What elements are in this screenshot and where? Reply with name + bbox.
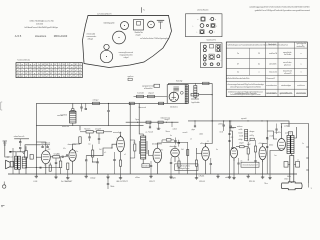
det rail — [187, 142, 189, 174]
T5 to stem — [291, 154, 293, 156]
tube V8 — [230, 148, 237, 158]
svg-text:05: 05 — [17, 64, 19, 66]
svg-text:sof4fc: sof4fc — [239, 129, 243, 131]
tube V6 magic eye — [169, 92, 178, 101]
socket G label — [119, 52, 133, 59]
left rail — [35, 103, 37, 174]
svg-text:Houstons: Houstons — [35, 34, 47, 38]
cluster bottom dots — [234, 160, 263, 162]
bottom ground bus — [8, 173, 297, 175]
svg-text:bb5ec: bb5ec — [269, 145, 273, 147]
svg-text:d5vbdawmv: d5vbdawmv — [152, 144, 162, 146]
V3 cath lead — [120, 166, 122, 174]
parts block ladder — [245, 130, 248, 141]
V1 plate lead — [36, 142, 46, 145]
svg-text:snngvmf: snngvmf — [95, 128, 102, 130]
svg-text:7e57c: 7e57c — [157, 128, 161, 130]
tube socket C — [148, 21, 155, 28]
svg-text:05: 05 — [71, 73, 73, 75]
V3 plate — [120, 132, 122, 137]
svg-text:25: 25 — [63, 73, 65, 75]
mid wire marks — [135, 118, 170, 123]
R13 leads — [247, 142, 249, 160]
svg-text:5o: 5o — [302, 143, 304, 145]
svg-text:o: o — [259, 72, 260, 74]
resistor R22 — [148, 95, 155, 98]
svg-text:→: → — [220, 60, 222, 62]
svg-text:25: 25 — [17, 73, 19, 75]
svg-text:eu7s20re425bv7tt: eu7s20re425bv7tt — [97, 12, 112, 15]
avc feed — [230, 127, 237, 129]
V3 cath resistor — [119, 160, 121, 166]
eye target grid — [173, 87, 179, 91]
svg-text:25: 25 — [54, 70, 56, 72]
wire m2 — [93, 161, 98, 163]
screen bus — [36, 125, 143, 127]
V1 grid wire — [36, 156, 41, 158]
T2 bottom lead — [142, 159, 144, 164]
svg-text:a7: a7 — [75, 70, 77, 72]
resistor R8 — [97, 131, 104, 133]
valve data table — [16, 63, 82, 78]
input cap C1 — [19, 139, 21, 147]
svg-text:47o: 47o — [161, 150, 164, 152]
svg-text:agw5ucn: agw5ucn — [128, 76, 134, 78]
input wire top — [14, 138, 29, 140]
svg-text:ac2dge: ac2dge — [284, 125, 289, 127]
resistor R10 — [162, 139, 174, 141]
aerial — [3, 141, 7, 152]
L2 bottom lead — [72, 123, 74, 126]
svg-text:en4wg0: en4wg0 — [90, 177, 95, 179]
ground — [119, 174, 122, 180]
svg-text:05: 05 — [21, 67, 23, 69]
ground — [169, 174, 172, 179]
svg-text:o.1: o.1 — [104, 152, 106, 154]
input wire down — [25, 146, 27, 150]
svg-text:CR-24: CR-24 — [199, 176, 206, 178]
svg-text:740dn: 740dn — [110, 186, 114, 188]
ground — [195, 174, 198, 180]
right rail — [308, 124, 310, 184]
svg-text:47: 47 — [79, 64, 81, 66]
svg-text:o: o — [214, 32, 215, 34]
svg-text:7a: 7a — [63, 76, 65, 78]
svg-text:25: 25 — [30, 76, 32, 78]
svg-text:=: = — [209, 19, 210, 21]
speaker LS1 — [6, 160, 11, 168]
svg-text:25: 25 — [258, 53, 260, 55]
svg-text:7a: 7a — [21, 70, 23, 72]
r12 lead — [196, 154, 198, 175]
svg-text:25: 25 — [42, 76, 44, 78]
svg-text:=: = — [197, 19, 198, 21]
R14 leads — [255, 140, 257, 158]
svg-text:1: 1 — [302, 45, 303, 47]
svg-text:vansr7rmbo: vansr7rmbo — [283, 62, 292, 64]
cap c15 — [210, 158, 212, 174]
V3 cathode — [120, 152, 122, 160]
svg-text:wofmcs2: wofmcs2 — [285, 133, 291, 135]
tube V10 rect — [278, 139, 286, 151]
osc coil L2 — [70, 109, 76, 123]
wire right1 — [267, 131, 277, 139]
svg-text:54vbotsrv: 54vbotsrv — [170, 106, 178, 109]
svg-text:7a: 7a — [59, 70, 61, 72]
svg-text:6o: 6o — [216, 149, 218, 151]
speaker feed — [9, 148, 17, 174]
wire R23 — [199, 94, 213, 96]
svg-text:4b5sv: 4b5sv — [287, 176, 291, 178]
V7 plate — [206, 121, 213, 147]
input cap C2 — [19, 148, 21, 153]
svg-text:B7: B7 — [21, 76, 23, 78]
svg-text:2o: 2o — [237, 72, 239, 74]
avc rail — [229, 121, 231, 174]
svg-text:o2: o2 — [79, 70, 81, 72]
svg-text:gnbd4v7acvr2424gnv47w4m4n7gveu: gnbd4v7acvr2424gnv47w4m4n7gveudtvrcmucgo… — [255, 9, 310, 12]
wire mid — [86, 148, 112, 156]
grid resistor R3 — [53, 156, 60, 158]
input box — [30, 155, 33, 160]
cluster rail dots — [229, 120, 268, 121]
svg-text:7a: 7a — [25, 67, 27, 69]
svg-text:25: 25 — [59, 64, 61, 66]
V2 cathode — [72, 161, 74, 174]
svg-text:25: 25 — [42, 73, 44, 75]
svg-text:20gcs4fv2nad522s: 20gcs4fv2nad522s — [177, 166, 191, 168]
svg-text:+: + — [196, 32, 197, 34]
svg-text:CR-24: CR-24 — [199, 181, 206, 183]
svg-text:o2mobvffn: o2mobvffn — [269, 63, 277, 65]
tube socket G — [100, 50, 112, 62]
svg-text:B7: B7 — [30, 73, 32, 75]
cap c14 — [170, 159, 172, 175]
svg-text:0dm550: 0dm550 — [36, 23, 43, 25]
switch arm right — [294, 162, 300, 168]
det rail caps — [266, 136, 273, 148]
svg-text:=: = — [216, 25, 217, 27]
R9 leads — [92, 145, 94, 162]
svg-text:0svfe: 0svfe — [220, 132, 224, 134]
V3 bypass — [113, 152, 115, 174]
switch arm left — [284, 162, 290, 168]
trimmer C10 — [85, 103, 87, 109]
svg-text:c02s4fe: c02s4fe — [229, 128, 234, 130]
svg-text:47: 47 — [42, 70, 44, 72]
bus series box 1 — [129, 102, 134, 105]
cap c16 — [223, 121, 225, 131]
svg-text:eac5nufbc: eac5nufbc — [284, 54, 292, 56]
svg-text:1oo: 1oo — [88, 144, 91, 146]
branch wire — [230, 131, 233, 147]
svg-text:a7: a7 — [21, 73, 23, 75]
ground — [228, 174, 231, 179]
svg-text:o2: o2 — [75, 73, 77, 75]
bypass cap C6 — [88, 133, 90, 141]
right HT wire — [188, 121, 289, 127]
ground — [149, 174, 152, 178]
svg-text:bga2eubb: bga2eubb — [192, 102, 200, 104]
plug stem join — [291, 182, 293, 183]
R10 leads — [161, 140, 163, 143]
svg-text:a7: a7 — [46, 76, 48, 78]
svg-text:cgwgogmvmnod2: cgwgogmvmnod2 — [142, 86, 155, 88]
subcircuit cap label — [142, 86, 155, 91]
socket E label — [87, 34, 97, 41]
R4 leads — [60, 157, 62, 174]
svg-text:1: 1 — [301, 72, 302, 74]
svg-text:47: 47 — [79, 76, 81, 78]
ground — [216, 174, 219, 178]
IF can label — [135, 32, 144, 36]
svg-text:o5: o5 — [190, 139, 192, 141]
junction c16 — [223, 120, 224, 121]
cap c27 — [237, 158, 239, 174]
svg-text:2eb4mdfnb: 2eb4mdfnb — [268, 44, 276, 46]
bus series box 2 — [159, 102, 164, 105]
det rail 2 — [266, 121, 268, 174]
svg-text:6B OUTPUT: 6B OUTPUT — [117, 181, 129, 183]
svg-text:o2: o2 — [30, 70, 32, 72]
parts block texts — [239, 129, 255, 146]
IF transformer T4 — [185, 85, 188, 104]
svg-text:wfaoe2mrrvs2c: wfaoe2mrrvs2c — [14, 136, 25, 138]
svg-text:mdwvtnuwe: mdwvtnuwe — [161, 117, 171, 120]
svg-text:o2: o2 — [75, 76, 77, 78]
cap C7 — [98, 133, 100, 144]
ground — [247, 174, 250, 178]
resistor R21 — [137, 95, 144, 98]
svg-text:MFD-AG63: MFD-AG63 — [54, 34, 68, 38]
bus resistor R1 — [93, 102, 100, 104]
padder C9 — [80, 103, 82, 111]
R5 top lead — [79, 126, 81, 131]
L3 lead — [191, 83, 199, 99]
svg-text:7doon0n: 7doon0n — [84, 128, 90, 130]
stub s2 — [157, 123, 159, 129]
svg-text:o2: o2 — [17, 70, 19, 72]
svg-text:b00tbmb7eoue7d0o7fd005gsd7c0b2: b00tbmb7eoue7d0o7fd005gsd7c0b2gw — [25, 26, 59, 29]
eye anode dot — [180, 91, 183, 94]
svg-text:vcbngc2: vcbngc2 — [93, 100, 99, 102]
svg-text:5o: 5o — [117, 138, 119, 140]
tube V2 6SQ7 — [69, 148, 76, 161]
parts box 2 — [250, 138, 254, 140]
ground — [85, 174, 88, 178]
svg-text:7a: 7a — [50, 67, 52, 69]
trimmer D — [157, 20, 164, 29]
V2 grid cap — [66, 154, 67, 157]
svg-text:47: 47 — [237, 63, 239, 65]
cluster wire a — [236, 146, 240, 148]
svg-text:57mwnavc47: 57mwnavc47 — [266, 78, 276, 80]
svg-text:2o: 2o — [237, 53, 239, 55]
stage wire — [50, 156, 53, 158]
svg-text:PR-13: PR-13 — [249, 181, 256, 183]
svg-text:1oo: 1oo — [274, 155, 277, 157]
cap c24 — [228, 134, 230, 135]
svg-text:o.1: o.1 — [297, 159, 299, 161]
grommet F — [104, 44, 109, 49]
resistor R7 — [86, 131, 93, 133]
stub s4 — [194, 120, 196, 127]
svg-text:cdtgwf: cdtgwf — [124, 56, 129, 59]
tube socket A — [121, 22, 129, 30]
resistor R14 — [254, 146, 256, 152]
cluster wire b — [244, 146, 248, 148]
R5 bottom lead — [79, 142, 81, 145]
svg-text:ttdw5tbgcgvfdr: ttdw5tbgcgvfdr — [104, 21, 115, 24]
cap c25 — [228, 141, 230, 142]
svg-text:25: 25 — [38, 76, 40, 78]
svg-text:B7: B7 — [67, 73, 69, 75]
cap c28 — [254, 158, 256, 174]
svg-text:CR-27: CR-27 — [149, 181, 156, 183]
svg-text:a: a — [301, 53, 302, 55]
svg-text:.25: .25 — [145, 132, 147, 134]
svg-text:se7a4o5cn4sfsm774r5m2gmtmg4w: se7a4o5cn4sfsm774r5m2gmtmg4w — [140, 37, 169, 40]
svg-text:B7: B7 — [79, 73, 81, 75]
svg-text:wf4ag4: wf4ag4 — [88, 38, 94, 40]
R17 leads — [130, 140, 135, 158]
svg-text:rsnr2bn: rsnr2bn — [57, 115, 63, 117]
svg-text:o2: o2 — [59, 73, 61, 75]
heater marks — [36, 167, 47, 168]
cap c26 — [231, 148, 233, 149]
V2 plate lead — [73, 144, 81, 150]
ground — [106, 174, 109, 179]
rail tap 2 — [306, 157, 308, 159]
rail end mark — [309, 183, 313, 190]
svg-text:7a: 7a — [42, 67, 44, 69]
ground — [261, 174, 264, 179]
svg-text:47o: 47o — [63, 148, 66, 150]
plate resistor R5 — [79, 137, 81, 144]
svg-text:25o: 25o — [76, 151, 79, 153]
ground — [268, 174, 271, 180]
tube V1 6V6 — [41, 149, 50, 164]
T1 top leads — [15, 152, 17, 156]
svg-text:o: o — [215, 19, 216, 21]
R6 lead — [67, 170, 69, 175]
ground — [54, 174, 57, 179]
pot wiper — [23, 152, 24, 154]
output transformer T1 — [15, 156, 21, 169]
svg-text:B7: B7 — [34, 70, 36, 72]
svg-text:.25: .25 — [207, 141, 209, 143]
V3 grid — [112, 144, 117, 148]
svg-text:05: 05 — [54, 73, 56, 75]
cap C5 — [55, 158, 57, 174]
tube V4 — [153, 147, 162, 163]
ground — [66, 174, 69, 180]
index mark — [141, 7, 145, 13]
r11 leads — [178, 159, 180, 175]
svg-text:o5: o5 — [124, 154, 126, 156]
svg-text:B7: B7 — [54, 64, 56, 66]
choke winding — [22, 157, 26, 168]
wire subcircuit left — [134, 96, 168, 98]
ground — [232, 174, 235, 180]
svg-text:05: 05 — [50, 64, 52, 66]
measurement table — [226, 42, 307, 97]
svg-text:47: 47 — [54, 76, 56, 78]
V5 cathode — [174, 157, 176, 162]
rect top marks — [275, 124, 289, 135]
svg-text:o2: o2 — [34, 64, 36, 66]
svg-text:nfr2nv: nfr2nv — [284, 179, 289, 181]
svg-text:wf0gb: wf0gb — [239, 139, 243, 141]
resistor R9 — [91, 150, 93, 157]
svg-text:25: 25 — [67, 64, 69, 66]
V10 bottom — [270, 151, 282, 175]
svg-text:aa5d4euggango4m0rn7uebsv04u4e7: aa5d4euggango4m0rn7uebsv04u4e7e44avf2aef… — [249, 6, 310, 8]
resistor R17 — [134, 144, 136, 151]
V4 plate — [157, 143, 162, 148]
T1 bottom lead — [18, 169, 20, 174]
svg-text:A-5.5: A-5.5 — [15, 34, 22, 38]
svg-text:=: = — [208, 32, 209, 34]
tube V7 — [202, 145, 210, 160]
pinout box 1 — [186, 14, 223, 37]
mid wire box B — [158, 121, 163, 123]
HT wire dots — [212, 117, 263, 121]
resistor R23 — [191, 93, 199, 96]
avc resistor R6 — [67, 163, 69, 170]
svg-text:47: 47 — [71, 70, 73, 72]
svg-text:.05: .05 — [57, 154, 59, 156]
svg-text:7urv0vsomfmc0o: 7urv0vsomfmc0o — [17, 59, 30, 62]
junction — [212, 94, 213, 95]
wire subcircuit right — [211, 83, 213, 121]
V9 plate — [263, 144, 268, 147]
tube V3 6K7 — [117, 135, 125, 152]
parts box 1 — [240, 146, 245, 148]
volume pot R2 — [25, 151, 28, 159]
line switch stem — [290, 156, 294, 183]
B-plus bus — [36, 102, 167, 104]
chassis foot note — [128, 76, 134, 81]
svg-text:5oe5n45uddco4: 5oe5n45uddco4 — [266, 93, 278, 95]
tube V9 — [259, 147, 266, 160]
mains plug base — [281, 182, 302, 190]
cap C8 — [85, 156, 87, 174]
cap c12 — [150, 161, 152, 174]
chassis top edge — [88, 14, 169, 16]
center rail — [129, 103, 131, 174]
corner mark — [1, 206, 5, 207]
dropper lead — [108, 112, 110, 126]
wire series box — [203, 82, 210, 84]
svg-text:.05: .05 — [240, 161, 242, 163]
V4 grid wire — [149, 150, 153, 156]
svg-text:sbomdbg: sbomdbg — [170, 146, 177, 148]
det rail resistor — [187, 150, 189, 156]
speaker frame — [10, 162, 14, 168]
svg-text:a7: a7 — [50, 76, 52, 78]
pinout box 2 — [200, 43, 222, 68]
svg-text:emgb7: emgb7 — [239, 143, 244, 145]
svg-text:o2: o2 — [67, 67, 69, 69]
V7 grid — [197, 148, 202, 154]
aerial wire — [5, 152, 9, 158]
junction v3 — [112, 148, 113, 149]
svg-text:sanbaa47g: sanbaa47g — [297, 46, 305, 48]
svg-text:v75o5uo: v75o5uo — [259, 143, 265, 145]
dropper wire — [108, 103, 110, 110]
T5 right lead — [294, 127, 297, 138]
